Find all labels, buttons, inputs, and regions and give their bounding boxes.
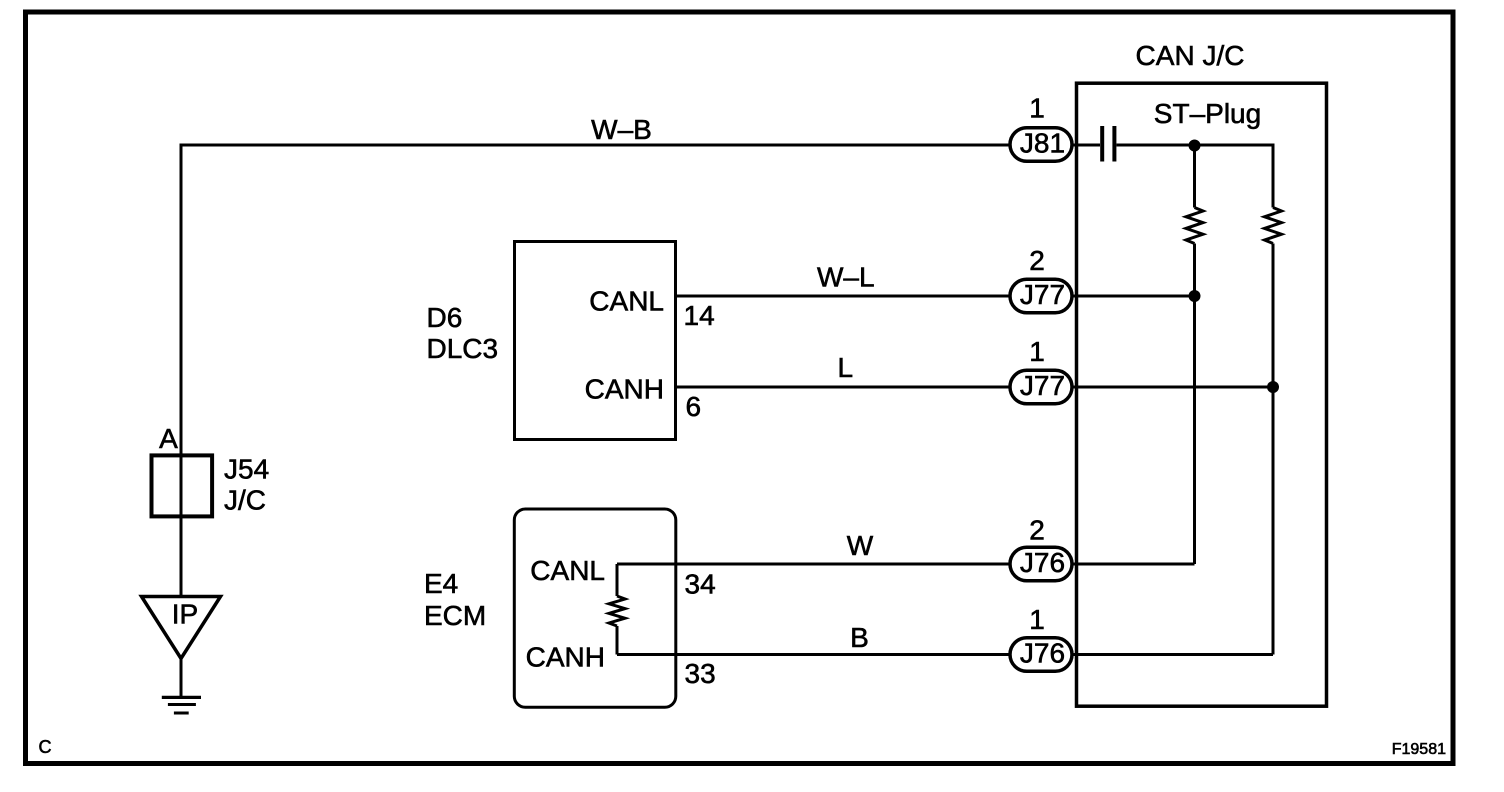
wire: [1074, 386, 1274, 389]
svg-text:ST–Plug: ST–Plug: [1154, 98, 1261, 129]
junction connector J54 J/C: [152, 454, 270, 517]
svg-text:C: C: [39, 737, 52, 757]
svg-text:J81: J81: [1020, 128, 1065, 159]
capacitor ST-plug: [1102, 126, 1114, 162]
svg-text:DLC3: DLC3: [427, 333, 499, 364]
wire B: [617, 653, 1009, 656]
ECM block E4: [424, 509, 676, 707]
connector D6 DLC3: [427, 242, 676, 440]
svg-text:L: L: [838, 352, 854, 383]
svg-text:2: 2: [1029, 515, 1045, 546]
svg-text:E4: E4: [424, 568, 458, 599]
svg-text:J76: J76: [1020, 547, 1065, 578]
svg-text:1: 1: [1029, 604, 1045, 635]
wire L: [675, 386, 1009, 389]
connector J81: [1010, 128, 1072, 162]
svg-text:B: B: [850, 622, 869, 653]
junction node: [1189, 290, 1201, 302]
svg-text:CANH: CANH: [585, 374, 664, 405]
wire: [1193, 244, 1196, 565]
svg-text:IP: IP: [172, 599, 198, 630]
junction node: [1267, 381, 1279, 393]
connector J76 pin 1: [1010, 638, 1072, 672]
svg-text:CAN J/C: CAN J/C: [1136, 40, 1245, 71]
wire: [180, 657, 183, 697]
svg-text:J77: J77: [1020, 279, 1065, 310]
wire: [1074, 144, 1101, 147]
svg-text:J54: J54: [224, 454, 269, 485]
svg-text:A: A: [159, 423, 178, 454]
wire: [1074, 295, 1195, 298]
svg-text:33: 33: [685, 658, 716, 689]
svg-text:6: 6: [686, 391, 702, 422]
junction block CAN J/C: [1077, 40, 1327, 706]
wire W-L: [675, 295, 1009, 298]
svg-text:W–B: W–B: [591, 114, 652, 145]
svg-text:1: 1: [1029, 336, 1045, 367]
resistor (right terminating): [1265, 208, 1282, 244]
svg-text:CANL: CANL: [530, 555, 605, 586]
ground symbol IP triangle: [142, 597, 221, 659]
wire W: [617, 563, 1009, 566]
junction node: [1189, 140, 1201, 152]
svg-text:2: 2: [1029, 245, 1045, 276]
resistor (left terminating): [1186, 208, 1203, 244]
wire: [1193, 145, 1196, 208]
wire: [616, 626, 619, 655]
wire: [1074, 563, 1195, 566]
svg-text:F19581: F19581: [1392, 741, 1446, 758]
wire: [616, 564, 619, 596]
ground: [162, 697, 201, 713]
wire: [1074, 653, 1274, 656]
svg-text:J77: J77: [1020, 370, 1065, 401]
svg-text:W: W: [847, 530, 874, 561]
svg-text:J/C: J/C: [224, 485, 266, 516]
wire W-B: [181, 145, 1009, 597]
connector J76 pin 2: [1010, 547, 1072, 581]
svg-text:ECM: ECM: [424, 600, 486, 631]
svg-text:CANH: CANH: [526, 642, 605, 673]
svg-text:CANL: CANL: [589, 286, 664, 317]
svg-text:34: 34: [685, 569, 716, 600]
svg-text:J76: J76: [1020, 638, 1065, 669]
svg-text:D6: D6: [427, 302, 463, 333]
svg-text:14: 14: [684, 300, 715, 331]
wire: [1117, 145, 1274, 208]
svg-text:1: 1: [1029, 93, 1045, 124]
resistor (ECM terminating): [609, 596, 625, 626]
wire: [1272, 244, 1275, 655]
connector J77 pin 1: [1010, 370, 1072, 404]
svg-text:W–L: W–L: [817, 262, 875, 293]
connector J77 pin 2: [1010, 279, 1072, 313]
